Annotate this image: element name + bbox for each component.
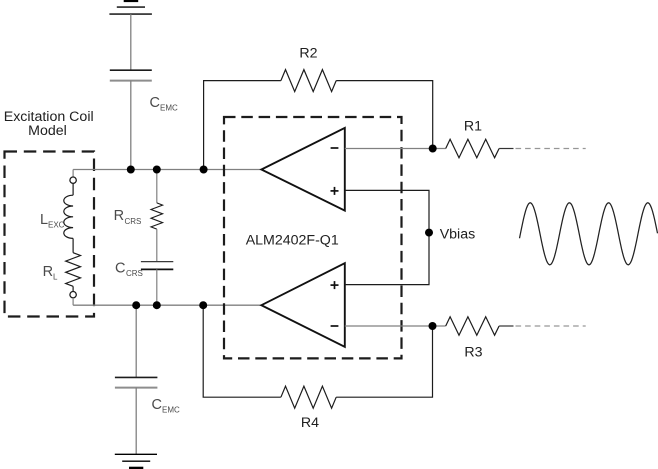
- wire: U1B inverting input to R3 node: [345, 325, 446, 327]
- wire: CEMC (bottom) to ground: [135, 388, 137, 455]
- node: bottom rail / CCRS junction: [153, 301, 161, 309]
- resistor R1: [446, 139, 499, 157]
- node: R3 junction: [429, 322, 437, 330]
- ground (top, inverted): [109, 1, 151, 14]
- svg-text:L: L: [53, 272, 58, 281]
- node: top rail / CEMC junction: [127, 166, 135, 174]
- sine waveform (output signal sketch): [520, 203, 658, 265]
- pin + (U1A non-inverting): [331, 187, 339, 195]
- svg-text:CRS: CRS: [126, 269, 143, 278]
- svg-text:EXC: EXC: [48, 221, 65, 230]
- wire: bottom rail junction to CEMC (bottom): [135, 305, 137, 377]
- wire: R4 feedback loop left vertical: [203, 305, 281, 397]
- IC U1 dashed box ALM2402F-Q1: [224, 117, 402, 358]
- wire: R2 feedback loop left vertical: [204, 81, 281, 170]
- svg-text:L: L: [40, 212, 48, 228]
- wire: U1A inverting input to R1 node: [345, 148, 446, 150]
- node: coil top terminal circle: [72, 170, 74, 178]
- resistor RL: [66, 253, 81, 287]
- svg-text:C: C: [115, 261, 125, 277]
- svg-text:R3: R3: [464, 344, 482, 360]
- svg-text:R: R: [43, 264, 53, 280]
- pin - (U1A inverting): [331, 147, 339, 149]
- pin + (U1B non-inverting): [331, 281, 339, 289]
- capacitor CEMC (top): [110, 70, 152, 80]
- op-amp U1B (bottom, pointing left): [261, 263, 344, 347]
- capacitor CCRS: [141, 262, 173, 270]
- inductor LEXC: [72, 183, 74, 195]
- node: bottom rail / R4 junction: [199, 301, 207, 309]
- wire: dashed continuation after R1: [516, 148, 586, 150]
- wire: top ground to CEMC top plate: [130, 14, 132, 70]
- resistor R2: [281, 70, 336, 92]
- resistor R3: [446, 317, 499, 335]
- svg-text:C: C: [150, 95, 160, 111]
- wire: R4 to R3 node: [336, 326, 432, 397]
- svg-text:C: C: [152, 397, 162, 413]
- svg-text:R1: R1: [464, 119, 482, 135]
- node: top rail / RCRS junction: [153, 166, 161, 174]
- wire: CEMC bottom plate to top rail junction: [130, 81, 132, 170]
- resistor RCRS: [151, 203, 163, 229]
- node: R1 junction: [429, 145, 437, 153]
- wire: R2 to R1 node: [336, 81, 433, 149]
- svg-text:R4: R4: [301, 415, 319, 431]
- svg-text:CRS: CRS: [125, 217, 142, 226]
- node: top rail / R2 junction: [200, 166, 208, 174]
- ground (bottom): [115, 454, 157, 468]
- svg-text:R: R: [114, 208, 124, 224]
- wire: LEXC to RL: [72, 238, 74, 252]
- node: coil bottom terminal circle: [72, 286, 74, 291]
- wire: junction to RCRS: [156, 170, 158, 203]
- wire: R3 output stub: [499, 325, 513, 327]
- svg-text:R2: R2: [299, 46, 317, 62]
- wire: U1A + to Vbias: [345, 190, 429, 284]
- capacitor CEMC (bottom): [115, 377, 157, 387]
- wire: R1 output stub: [499, 148, 513, 150]
- wire: CCRS to bottom rail: [156, 269, 158, 305]
- svg-text:ALM2402F-Q1: ALM2402F-Q1: [246, 232, 339, 248]
- pin - (U1B inverting): [331, 325, 339, 327]
- svg-text:EMC: EMC: [162, 405, 180, 414]
- wire: dashed continuation after R3: [516, 325, 586, 327]
- node: bottom rail / CEMC junction: [132, 301, 140, 309]
- node: Vbias: [425, 229, 433, 237]
- resistor R4: [281, 386, 336, 408]
- dashed box: excitation coil model: [5, 152, 95, 317]
- wire: RCRS to CCRS: [156, 229, 158, 261]
- svg-text:Vbias: Vbias: [440, 227, 476, 243]
- svg-text:EMC: EMC: [160, 104, 178, 113]
- op-amp U1A (top, pointing left): [261, 128, 344, 211]
- svg-text:Model: Model: [28, 123, 67, 139]
- wire: top rail: [73, 169, 261, 171]
- wire: bottom rail: [73, 304, 261, 306]
